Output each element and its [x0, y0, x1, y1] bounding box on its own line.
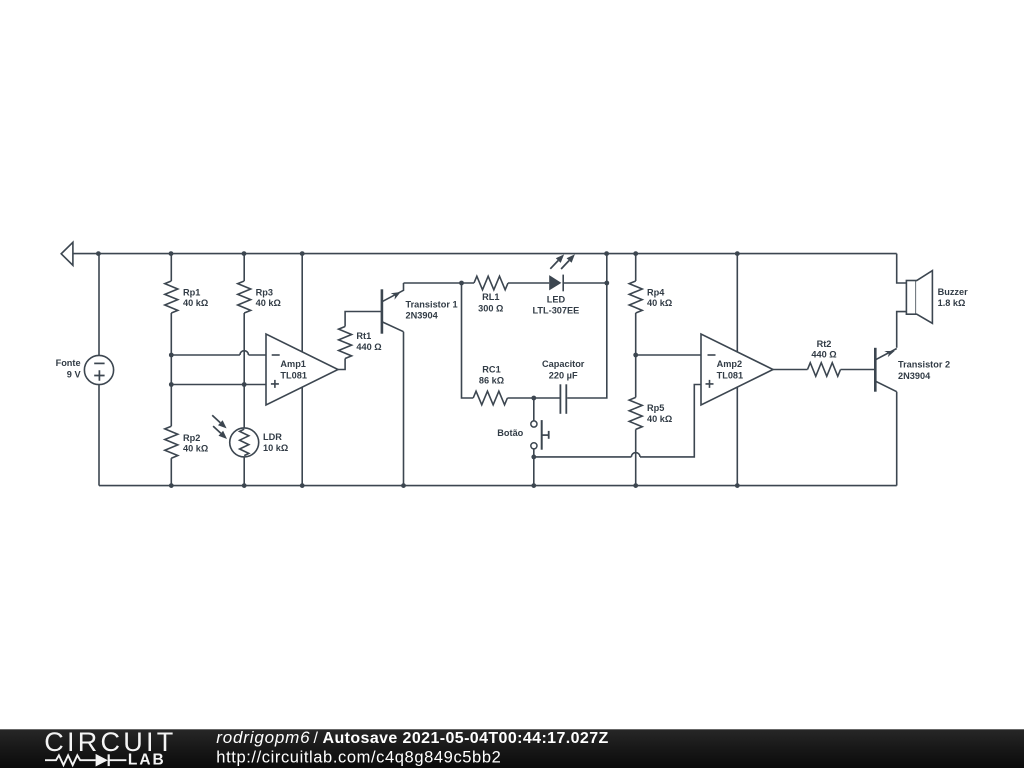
- wire Amp2 output to Rt2: [773, 369, 808, 371]
- pushbutton switch Botão: [531, 420, 549, 450]
- wire Rp1-Rp2 middle segment: [170, 313, 172, 426]
- wire Transistor 2 collector to bottom rail: [896, 392, 898, 486]
- LDR inner zigzag: [240, 429, 249, 455]
- junction Rp3-LDR node / non-inverting wire: [242, 382, 247, 387]
- transistor Q1 Transistor 1 2N3904: [382, 283, 404, 334]
- wire RL1 to LED: [508, 282, 549, 284]
- wire Rt2 to Transistor 2 base: [841, 369, 875, 371]
- transistor Q2 Transistor 2 2N3904: [875, 348, 896, 392]
- wire top rail down to buzzer top terminal: [897, 254, 907, 283]
- wire RC1 to capacitor node: [507, 397, 533, 399]
- svg-text:RC186 kΩ: RC186 kΩ: [479, 364, 504, 385]
- wire Rp1 top lead: [170, 254, 172, 281]
- resistor Rp5: [629, 397, 642, 429]
- op-amp U1 Amp1 TL081: [266, 334, 338, 405]
- wire Rp5 bottom lead: [635, 429, 637, 485]
- LED LTL-307EE: [549, 275, 563, 292]
- buzzer Buzzer 1.8 k-ohm: [906, 271, 932, 324]
- wire switch bottom terminal down to rail: [533, 449, 535, 485]
- wire switch node to Amp2 + (left part): [534, 456, 632, 458]
- junction bottom rail / Amp2 V-: [735, 483, 740, 488]
- CircuitLab logo diode symbol: [96, 754, 108, 767]
- resistor Rt1: [339, 327, 352, 359]
- resistor Rt2: [808, 363, 841, 377]
- junction top rail / Rp4: [633, 251, 638, 256]
- junction emitter wire / RC loop: [459, 281, 464, 286]
- wire capacitor left lead: [534, 397, 560, 399]
- junction bottom rail / switch node: [531, 483, 536, 488]
- junction switch bottom node: [531, 455, 536, 460]
- LED emission arrow 2: [561, 261, 569, 270]
- wire RL1 node down to RC1: [462, 283, 474, 398]
- wire LED cathode to node: [563, 282, 607, 284]
- resistor Rp4: [629, 281, 642, 313]
- capacitor C1 220 uF: [560, 384, 566, 414]
- wire to Amp2 non-inverting input: [640, 385, 701, 457]
- junction Rp1-Rp2 node / non-inverting wire: [169, 382, 174, 387]
- svg-text:Amp2TL081: Amp2TL081: [717, 359, 744, 380]
- svg-text:Buzzer1.8 kΩ: Buzzer1.8 kΩ: [938, 287, 969, 308]
- svg-text:/: /: [314, 730, 319, 747]
- svg-text:http://circuitlab.com/c4q8g849: http://circuitlab.com/c4q8g849c5bb2: [216, 749, 501, 767]
- wire LDR bottom lead: [243, 457, 245, 486]
- junction top rail / LED node: [604, 251, 609, 256]
- LDR light arrow 1: [212, 415, 220, 422]
- svg-text:LAB: LAB: [128, 752, 164, 768]
- junction bottom rail / Rp5: [633, 483, 638, 488]
- wire Rt1 to Transistor 1 base: [345, 312, 381, 327]
- resistor Rp1: [165, 281, 178, 313]
- wire Rp4 top lead: [635, 254, 637, 281]
- junction top rail / Rp3: [242, 251, 247, 256]
- wire Amp1 V+ supply: [301, 254, 303, 352]
- wire Rp2 bottom lead: [170, 458, 172, 485]
- resistor RL1: [474, 276, 508, 290]
- wire Rp3 top lead: [243, 254, 245, 281]
- wire Amp1 inverting input (left part): [171, 354, 240, 356]
- junction top rail / Fonte: [96, 251, 101, 256]
- wire top rail: [73, 253, 897, 255]
- wire hop over Rp3 column: [240, 351, 249, 355]
- junction top rail / Amp1 V+: [300, 251, 305, 256]
- junction bottom rail / Rp2: [169, 483, 174, 488]
- LDR light arrow 2: [213, 426, 221, 433]
- wire LED node column down to capacitor: [567, 254, 607, 398]
- resistor Rp3: [238, 281, 251, 313]
- svg-text:Autosave 2021-05-04T00:44:17.0: Autosave 2021-05-04T00:44:17.027Z: [323, 730, 609, 747]
- svg-text:rodrigopm6: rodrigopm6: [216, 728, 310, 747]
- wire Rp4-Rp5 middle segment: [635, 313, 637, 397]
- op-amp U2 Amp2 TL081: [701, 334, 773, 405]
- wire Amp1 inverting input (right part): [249, 354, 267, 356]
- wire to switch top terminal: [533, 398, 535, 421]
- wire Rp3-LDR middle segment: [243, 313, 245, 428]
- junction Rp1-Rp2 node / inverting wire: [169, 353, 174, 358]
- junction Rp4-Rp5 node / Amp2 inverting wire: [633, 353, 638, 358]
- wire hop over Rp5 column: [631, 453, 640, 457]
- wire Fonte bottom lead: [98, 385, 100, 486]
- wire bottom rail: [99, 485, 897, 487]
- junction LED cathode / node column: [604, 281, 609, 286]
- resistor Rp2: [165, 426, 178, 458]
- wire Amp2 V+ supply: [736, 254, 738, 352]
- CircuitLab logo resistor symbol: [45, 755, 96, 765]
- wire Transistor 1 emitter to RL1: [404, 282, 475, 284]
- svg-text:Amp1TL081: Amp1TL081: [280, 359, 307, 381]
- node flag (net marker): [61, 242, 73, 265]
- junction bottom rail / Transistor 1 collector: [401, 483, 406, 488]
- wire Transistor 2 emitter up to buzzer: [897, 312, 907, 348]
- svg-text:Botão: Botão: [497, 428, 523, 438]
- junction bottom rail / Amp1 V-: [300, 483, 305, 488]
- wire Amp1 non-inverting input: [171, 384, 266, 386]
- wire Amp2 V- supply: [736, 388, 738, 486]
- junction RC1 / capacitor / switch: [531, 396, 536, 401]
- wire Fonte top lead: [98, 254, 100, 356]
- junction top rail / Rp1: [169, 251, 174, 256]
- photoresistor LDR 10 k-ohm: [230, 428, 259, 457]
- resistor RC1: [473, 391, 507, 405]
- wire Amp1 output to Rt1: [338, 359, 345, 370]
- LED emission arrow 1: [550, 261, 558, 269]
- wire Amp2 inverting input: [636, 354, 701, 356]
- voltage source Fonte 9 V: [84, 355, 113, 384]
- wire Amp1 V- supply: [301, 388, 303, 486]
- junction top rail / Amp2 V+: [735, 251, 740, 256]
- junction bottom rail / LDR: [242, 483, 247, 488]
- wire Transistor 1 collector to bottom rail: [403, 332, 405, 486]
